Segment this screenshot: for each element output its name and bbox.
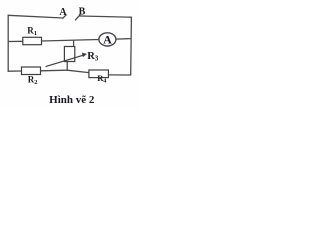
resistor R1 [23,37,42,44]
resistor R4 [89,70,109,78]
svg-text:A: A [59,7,67,18]
wire bottom row junction to R4 [67,70,89,72]
svg-text:A: A [103,33,112,47]
wire middle row ammeter to right vertical [116,38,131,41]
svg-text:R2: R2 [28,74,38,86]
wire bottom row R4 to right corner [108,74,130,76]
wire top left segment (to switch contact A) [8,15,63,18]
wire stub R3 top [73,41,75,47]
wire bottom row R2 to junction [41,69,68,72]
svg-text:B: B [79,6,86,17]
wire middle row left (to R1) [8,40,23,42]
wire right vertical [130,17,133,75]
wire top right segment from B [80,16,131,17]
switch blade K (open) [75,15,80,20]
switch contact tick at A [63,15,66,18]
svg-text:R3: R3 [87,51,99,63]
svg-text:Hình vẽ 2: Hình vẽ 2 [49,94,95,106]
rheostat arrow through R3 [46,53,87,67]
resistor R2 [22,67,41,75]
rheostat R3 (vertical box) [64,47,74,62]
svg-text:R1: R1 [27,26,37,38]
wire middle row R1 to ammeter [42,40,99,42]
wire left vertical [7,15,9,71]
wire bottom row left (to R2) [8,70,21,72]
ammeter U1 (circle) [99,33,116,46]
wire stub R3 bottom [66,62,68,71]
